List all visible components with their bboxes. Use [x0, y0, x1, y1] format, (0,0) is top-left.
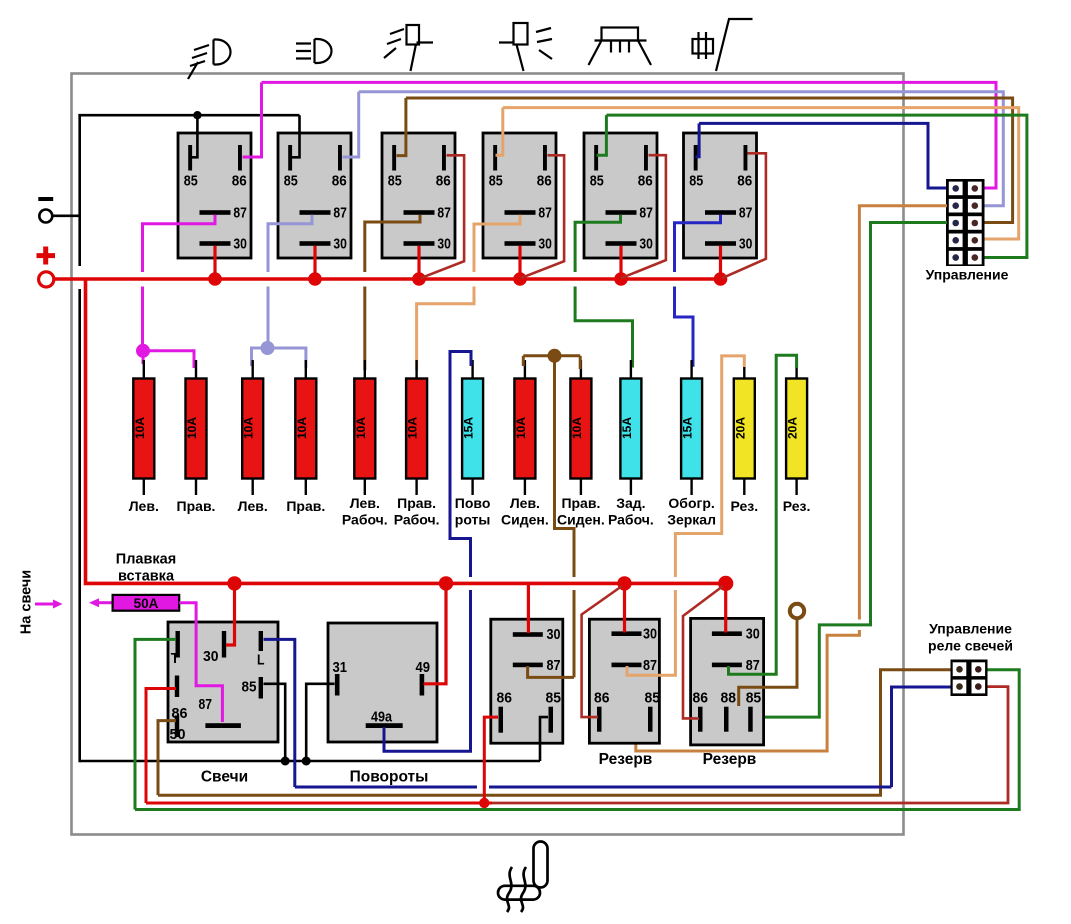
svg-text:87: 87 [199, 696, 213, 713]
relay K5 pin 87 [606, 205, 653, 222]
wire: red bottom line to X2 connector [146, 802, 492, 805]
wire: feed relay K8 pin30 [527, 583, 530, 633]
icon: fog lamp symbol [188, 40, 231, 80]
svg-text:Управление: Управление [929, 621, 1012, 637]
fuse F11 body 15А [681, 379, 702, 479]
wire: K5 pin86 red feed from bus [621, 155, 666, 278]
node: ground line junction 1 [281, 757, 290, 766]
wire: feed Povoroty relay pin49 [424, 583, 447, 683]
wire: violet control run to connector X1 [359, 92, 1004, 206]
node: lower bus junction above Povoroty relay [439, 576, 453, 590]
node: ground line junction 2 [302, 757, 311, 766]
Svechi pin 87 [199, 696, 241, 728]
svg-text:88: 88 [721, 690, 737, 707]
plus terminal [37, 247, 56, 288]
svg-text:Зеркал: Зеркал [667, 512, 716, 528]
Svechi pin T [171, 631, 180, 667]
fuse F6 body 10А [406, 379, 427, 479]
svg-text:85: 85 [184, 173, 198, 190]
node: bus junction under relay K2 [308, 272, 322, 286]
node: bus junction under relay K3 [412, 272, 426, 286]
connector X2 body [951, 660, 988, 697]
svg-text:86: 86 [693, 690, 709, 707]
svg-text:85: 85 [388, 173, 402, 190]
wire: relay K8 pin 85 black to ground line [540, 717, 548, 761]
svg-text:Рез.: Рез. [730, 498, 758, 514]
relay K4 pin 86 [537, 145, 552, 190]
svg-text:Резерв: Резерв [599, 751, 653, 768]
svg-text:85: 85 [242, 679, 257, 696]
wire: tan control run to connector X1 [503, 108, 1019, 239]
wire: K4 pin86 red feed from bus [521, 155, 565, 278]
relay K8 (spare) body [491, 619, 563, 743]
svg-text:Сиден.: Сиден. [557, 512, 605, 528]
wire: tan reserve fuse F12 to relay K9 pin87 (gap at lower bus) [675, 356, 744, 577]
fuse F7 body 15А [462, 379, 483, 479]
svg-text:10А: 10А [185, 417, 199, 439]
svg-text:86: 86 [232, 173, 247, 190]
svg-text:вставка: вставка [118, 569, 175, 585]
wire: brown feed to F8/F9 and down to relay K8 pin87 [522, 356, 525, 366]
relay K3 pin 87 [404, 205, 451, 222]
wire: red riser from + bus down to lower bus [86, 280, 726, 583]
relay K1 body [178, 133, 251, 258]
svg-text:20А: 20А [733, 417, 747, 439]
svg-text:30: 30 [437, 236, 451, 253]
fuse F4 body 10А [295, 379, 316, 479]
wire: relay K1 pin30 to bus [213, 246, 216, 279]
wire: Povoroty pin 31 black to ground line [306, 684, 334, 761]
svg-text:10А: 10А [133, 417, 147, 439]
K10 pin 87 [712, 657, 760, 674]
fuse F12 body 20А [734, 379, 755, 479]
wire: K2 pin87 violet to fuse F3/F4 node (gap at bus) [268, 215, 312, 272]
relay K4 pin 30 [505, 236, 552, 253]
svg-text:87: 87 [547, 657, 561, 674]
fuse F5 body 10А [354, 379, 375, 479]
relay K1 pin 86 [232, 145, 247, 190]
fuse F2 body 10А [186, 379, 207, 479]
Povoroty pin 49a [366, 709, 403, 729]
svg-text:Зад.: Зад. [616, 495, 645, 511]
relay Svechi (glow plug relay) body [168, 622, 278, 742]
wire: black ground bottom line y=761 [80, 760, 540, 763]
K9 pin 85 [645, 690, 661, 732]
svg-text:Пово: Пово [455, 495, 491, 511]
K9 pin 87 [612, 657, 658, 674]
svg-text:Прав.: Прав. [397, 495, 436, 511]
relay K5 body [584, 133, 657, 258]
fuse F4 10А leads [305, 360, 307, 393]
Svechi pin 86 [172, 676, 188, 723]
fuse F12 20А leads [743, 360, 745, 393]
wire: K6 pin85 navy from top run [696, 123, 700, 156]
svg-text:Обогр.: Обогр. [668, 495, 714, 511]
svg-text:87: 87 [437, 205, 451, 222]
wire: feed reserve relay K10 pin30 [724, 583, 727, 632]
svg-text:49а: 49а [371, 709, 393, 726]
K8 pin 87 [513, 657, 561, 674]
wire: K2 pin85 black drop [292, 115, 300, 157]
svg-text:50А: 50А [134, 596, 159, 611]
svg-text:Рабоч.: Рабоч. [608, 512, 654, 528]
wire: green reserve fuse F13 to relay K10 pin87 [729, 355, 797, 674]
fuse F9 body 10А [570, 379, 591, 479]
fuse F5 10А leads [364, 360, 366, 393]
svg-text:Повороты: Повороты [350, 769, 429, 786]
svg-text:30: 30 [203, 648, 219, 665]
wire: ring terminal brown to relay K10 pin 88 [739, 619, 797, 707]
fuse F10 15А leads [630, 360, 632, 393]
wire: feed reserve relay K9 pin30 [623, 583, 626, 632]
icon: glow plug with switch symbol [693, 19, 753, 71]
svg-text:87: 87 [746, 657, 760, 674]
svg-text:85: 85 [284, 173, 298, 190]
wire: main +12V bus (upper) [53, 277, 721, 281]
relay K3 pin 86 [436, 145, 451, 190]
svg-text:Рез.: Рез. [783, 498, 811, 514]
wire: violet branch to F3 [252, 348, 268, 366]
svg-text:20А: 20А [786, 417, 800, 439]
svg-text:30: 30 [643, 626, 657, 643]
svg-text:10А: 10А [514, 417, 528, 439]
wire: K6 pin86 red feed from bus [722, 153, 766, 278]
relay K4 body [483, 133, 556, 258]
wire: navy control run to connector X1 [699, 123, 947, 188]
K10 pin 86 [693, 690, 709, 732]
wire: minus terminal to black distribution line [53, 215, 82, 218]
svg-text:85: 85 [689, 173, 703, 190]
fuse F6 10А leads [415, 360, 417, 393]
relay K2 pin 86 [332, 145, 347, 190]
svg-text:86: 86 [594, 690, 610, 707]
wire: relay K5 pin30 to bus [619, 246, 622, 279]
K10 pin 88 [721, 690, 737, 732]
icon: low beam lamp symbol [296, 39, 332, 63]
svg-text:Плавкая: Плавкая [116, 552, 176, 568]
fuse F13 body 20А [786, 379, 807, 479]
svg-text:15А: 15А [462, 417, 476, 439]
Svechi pin 30 [203, 631, 226, 665]
svg-text:Управление: Управление [926, 267, 1009, 283]
svg-text:30: 30 [547, 626, 561, 643]
relay K3 body [382, 133, 455, 258]
svg-text:30: 30 [746, 626, 760, 643]
svg-text:87: 87 [233, 205, 247, 222]
node: violet junction above F3/F4 [261, 341, 275, 355]
connector X1 row 1 cells [949, 182, 963, 196]
wire: K2 pin86 violet to top run [343, 92, 359, 157]
svg-text:30: 30 [639, 236, 653, 253]
connector X1 row 4 cells [949, 234, 963, 248]
K8 pin 86 [497, 690, 513, 733]
fuse F13 20А leads [795, 360, 797, 393]
svg-text:31: 31 [333, 659, 348, 676]
fuse F8 body 10А [514, 379, 535, 479]
svg-text:10А: 10А [570, 417, 584, 439]
svg-text:L: L [257, 652, 265, 669]
relay K1 pin 87 [200, 205, 247, 222]
node: lower bus junction above Svechi relay [227, 576, 241, 590]
relay K1 pin 85 [184, 145, 198, 190]
wire: relay K2 pin30 to bus [313, 246, 316, 279]
fuse F3 body 10А [242, 379, 263, 479]
svg-text:Лев.: Лев. [510, 495, 540, 511]
svg-text:85: 85 [590, 173, 604, 190]
svg-text:Лев.: Лев. [238, 498, 268, 514]
relay K1 pin 30 [200, 236, 247, 253]
wire: black top run to relays K1,K2 pin 85 [78, 114, 299, 117]
K9 pin 86 [594, 690, 610, 732]
connector X2 row 2 cells [953, 680, 967, 694]
wire: relay K8 pin 86 red to bottom red line [484, 717, 498, 801]
wire: relay K3 pin30 to bus [417, 246, 420, 279]
wire: K3 pin85 brown from top run [397, 98, 406, 156]
wire: Svechi pin L navy to X2 connector via bottom navy line [264, 639, 295, 787]
relay Povoroty (turn signal relay) body [328, 623, 437, 742]
wire: magenta branch to F2 [143, 351, 194, 368]
wire: K5 pin87 green down to fuse F10 (gap at bus) [575, 215, 620, 272]
svg-text:Прав.: Прав. [286, 498, 325, 514]
node: lower bus junction above reserve relay K9 [617, 576, 631, 590]
svg-text:10А: 10А [242, 417, 256, 439]
relay K2 pin 87 [300, 205, 347, 222]
relay K4 pin 85 [489, 145, 503, 190]
K10 pin 30 [712, 626, 760, 643]
svg-text:30: 30 [233, 236, 247, 253]
node: red junction on bottom line [479, 798, 489, 808]
svg-text:Прав.: Прав. [177, 498, 216, 514]
wire: X1 tan lead to reserve relay K10 pin85 [859, 206, 947, 620]
svg-text:Т: Т [171, 650, 180, 667]
svg-text:87: 87 [643, 657, 657, 674]
Svechi pin 50 [170, 716, 186, 744]
icon: beacon / roof lamp symbol [589, 28, 652, 66]
svg-text:30: 30 [333, 236, 347, 253]
wire: K5 pin85 green from top run [597, 115, 607, 155]
svg-text:87: 87 [639, 205, 653, 222]
wire: Svechi pin T green to bottom green line [135, 639, 176, 809]
wire: brown bottom line to X2 connector [158, 670, 952, 796]
relay K3 pin 85 [388, 145, 402, 190]
svg-text:86: 86 [332, 173, 347, 190]
wire: K1 pin85 black drop [191, 115, 197, 157]
relay K2 pin 30 [300, 236, 347, 253]
svg-text:Рабоч.: Рабоч. [394, 512, 440, 528]
wire: Svechi pin 85 black to ground line [264, 684, 286, 761]
wire: black vertical trunk x=79.7 (gap at red bus) [78, 114, 81, 266]
connector X2 row 1 cells [953, 662, 967, 676]
svg-text:85: 85 [746, 690, 762, 707]
svg-text:10А: 10А [295, 417, 309, 439]
fuse F1 10А leads [143, 360, 145, 393]
wire: X1 green lead to reserve relay K11 pin85 [753, 223, 947, 718]
svg-text:30: 30 [538, 236, 552, 253]
fuse F3 10А leads [251, 360, 253, 393]
wire: feed Svechi relay pin30 [226, 583, 235, 645]
wire: magenta control run to connector X1 [262, 82, 997, 188]
icon: glow plug symbol (bottom) [498, 842, 548, 913]
relay K2 pin 85 [284, 145, 298, 190]
Povoroty pin 49 [416, 659, 431, 696]
wire: relay K4 pin30 to bus [518, 246, 521, 279]
wire: green bottom line to X2 connector [135, 670, 1019, 810]
wire: K1 pin86 magenta to top run [243, 82, 262, 157]
minus terminal [38, 199, 53, 223]
node: bus junction under relay K6 [714, 272, 728, 286]
svg-text:30: 30 [739, 236, 753, 253]
svg-text:На свечи: На свечи [19, 570, 35, 634]
relay K6 pin 30 [705, 236, 752, 253]
wire: magenta from border to 50A fusible link [97, 601, 113, 604]
outer gray border frame (decorative) [72, 74, 904, 835]
node: magenta junction above F1 [136, 344, 150, 358]
svg-text:86: 86 [436, 173, 451, 190]
node: brown junction above F8/F9 [548, 349, 562, 363]
svg-text:15А: 15А [620, 417, 634, 439]
svg-text:49: 49 [416, 659, 431, 676]
fusible link FL1 50A body [113, 595, 180, 611]
wire: Svechi pin 86 red to bottom red line [146, 689, 176, 804]
Svechi pin L [257, 631, 265, 669]
svg-text:86: 86 [537, 173, 552, 190]
wire: diagonal feed reserve relay K9 pin86 [582, 586, 622, 717]
wire: violet branch to F4 [268, 348, 306, 368]
wire: diagonal feed reserve relay K10 pin86 [683, 586, 723, 718]
fuse F2 10А leads [195, 360, 197, 393]
Svechi pin 85 [242, 677, 264, 699]
relay K9 (reserve) body [589, 619, 659, 743]
svg-text:Лев.: Лев. [350, 495, 380, 511]
fuse F9 10А leads [580, 360, 582, 393]
ring terminal (brown) [790, 604, 804, 618]
node: bus junction under relay K5 [614, 272, 628, 286]
relay K5 pin 85 [590, 145, 604, 190]
relay K6 pin 87 [705, 205, 752, 222]
fuse F11 15А leads [690, 360, 692, 393]
svg-text:86: 86 [737, 173, 752, 190]
relay K3 pin 30 [404, 236, 451, 253]
svg-text:87: 87 [538, 205, 552, 222]
fuse F1 body 10А [133, 379, 154, 479]
connector X1 body [946, 179, 985, 266]
wire: K3 pin87 brown down to fuse F5 (gap at bus) [365, 215, 420, 272]
wire: navy turn-signal feed F7 to relay K7 pin 49a (gap at lower bus) [450, 352, 471, 578]
svg-text:86: 86 [497, 690, 513, 707]
svg-text:85: 85 [489, 173, 503, 190]
K10 pin 85 [746, 690, 762, 732]
Povoroty pin 31 [333, 659, 348, 696]
relay K4 pin 87 [505, 205, 552, 222]
K8 pin 30 [513, 626, 561, 643]
icon: work lamp left symbol [384, 25, 433, 71]
svg-text:Рабоч.: Рабоч. [342, 512, 388, 528]
icon: work lamp right symbol [499, 23, 552, 71]
svg-text:15А: 15А [681, 417, 695, 439]
svg-text:Свечи: Свечи [201, 769, 248, 786]
wire: magenta output to glow plugs (left stub with arrow) [35, 603, 56, 606]
relay K10 (reserve) body [691, 618, 764, 745]
wire: K6 pin87 blue down to fuse F11 (gap at bus) [675, 215, 721, 272]
K9 pin 30 [612, 626, 658, 643]
fuse F10 body 15А [620, 379, 641, 479]
relay K6 pin 86 [737, 145, 752, 190]
node: lower bus junction above reserve relay K10 [718, 576, 733, 591]
node: bus junction under relay K1 [208, 272, 222, 286]
connector X1 row 5 cells [949, 251, 963, 265]
relay K5 pin 30 [606, 236, 653, 253]
svg-text:85: 85 [546, 690, 562, 707]
relay K6 body [684, 133, 757, 258]
wire: K1 pin87 magenta to fuse F1/F2 node (gap at bus) [143, 215, 216, 272]
wire: brown control run to connector X1 [406, 98, 1013, 223]
svg-text:87: 87 [333, 205, 347, 222]
svg-text:Прав.: Прав. [561, 495, 600, 511]
fuse F8 10А leads [524, 360, 526, 393]
svg-text:10А: 10А [354, 417, 368, 439]
connector X1 row 2 cells [949, 199, 963, 213]
svg-text:10А: 10А [406, 417, 420, 439]
wire: magenta 50A link to Svechi relay pin87 [179, 603, 222, 722]
fuse F7 15А leads [471, 360, 473, 393]
wire: K4 pin85 tan from top run [496, 108, 503, 156]
svg-text:86: 86 [638, 173, 653, 190]
relay K6 pin 85 [689, 145, 703, 190]
relay K5 pin 86 [638, 145, 653, 190]
node: bus junction under relay K4 [513, 272, 527, 286]
node: junction above relay K1 [193, 111, 201, 119]
relay K2 body [278, 133, 351, 258]
wire: Svechi pin 50 brown to bottom brown line [158, 721, 176, 796]
wire: K3 pin86 red feed from bus [421, 155, 465, 278]
connector X1 row 3 cells [949, 216, 963, 230]
wire: green control run to connector X1 [606, 115, 1027, 257]
svg-text:85: 85 [645, 690, 661, 707]
svg-text:50: 50 [170, 726, 186, 743]
svg-text:реле свечей: реле свечей [928, 638, 1013, 654]
wire: K4 pin87 tan down to fuse F6 (gap at bus) [474, 215, 520, 272]
svg-text:Резерв: Резерв [703, 751, 757, 768]
svg-text:Лев.: Лев. [129, 498, 159, 514]
svg-text:роты: роты [455, 512, 491, 528]
wire: relay K6 pin30 to bus [719, 246, 722, 279]
svg-text:87: 87 [739, 205, 753, 222]
K8 pin 85 [546, 690, 562, 733]
svg-text:Сиден.: Сиден. [501, 512, 549, 528]
